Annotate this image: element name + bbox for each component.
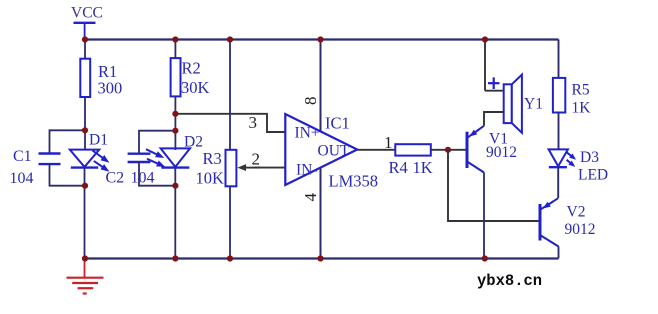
- svg-text:Y1: Y1: [524, 96, 543, 113]
- svg-text:C2: C2: [106, 170, 125, 187]
- svg-text:300: 300: [98, 79, 123, 98]
- svg-text:R5: R5: [572, 82, 590, 99]
- svg-text:VCC: VCC: [71, 5, 103, 22]
- svg-text:3: 3: [249, 113, 258, 132]
- svg-text:4: 4: [301, 193, 320, 202]
- svg-text:IN+: IN+: [295, 125, 320, 142]
- svg-text:LED: LED: [578, 167, 608, 184]
- svg-text:30K: 30K: [181, 78, 210, 97]
- svg-text:LM358: LM358: [329, 172, 379, 191]
- svg-text:D2: D2: [184, 134, 203, 151]
- svg-text:R4: R4: [389, 158, 408, 177]
- svg-text:OUT: OUT: [318, 143, 350, 160]
- svg-text:9012: 9012: [486, 144, 517, 161]
- svg-text:2: 2: [252, 150, 261, 169]
- svg-text:104: 104: [131, 170, 155, 187]
- svg-text:ybx8.cn: ybx8.cn: [477, 272, 542, 290]
- svg-text:1K: 1K: [413, 158, 433, 177]
- svg-text:C1: C1: [13, 148, 32, 165]
- svg-text:IN-: IN-: [296, 162, 318, 179]
- svg-text:104: 104: [10, 170, 34, 187]
- svg-text:D3: D3: [580, 149, 599, 166]
- svg-text:R2: R2: [182, 59, 201, 78]
- svg-text:1K: 1K: [572, 100, 592, 117]
- svg-text:D1: D1: [89, 132, 108, 149]
- svg-text:V2: V2: [567, 204, 586, 221]
- svg-text:8: 8: [301, 97, 320, 106]
- svg-text:10K: 10K: [196, 169, 225, 188]
- svg-text:IC1: IC1: [325, 114, 350, 133]
- svg-text:9012: 9012: [565, 221, 596, 238]
- svg-text:R3: R3: [203, 149, 222, 168]
